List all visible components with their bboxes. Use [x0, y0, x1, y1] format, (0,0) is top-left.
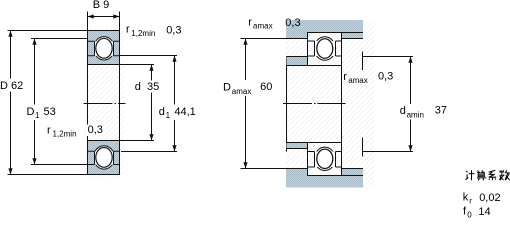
label kr 0,02	[463, 192, 501, 206]
right figure hatch	[286, 20, 374, 188]
left figure hatch	[84, 28, 124, 177]
centerline right	[283, 103, 346, 105]
housing top (blue)	[286, 20, 363, 39]
dimension D 62	[0, 31, 88, 175]
ball bottom	[96, 148, 112, 168]
shaft shoulder top (blue)	[287, 57, 308, 66]
svg-text:0: 0	[467, 210, 472, 218]
svg-text:r: r	[248, 17, 252, 29]
svg-text:D: D	[223, 82, 231, 94]
label r1,2min 0,3 top	[126, 24, 181, 38]
svg-text:1: 1	[35, 111, 40, 120]
shaft shoulder bottom (blue)	[287, 143, 308, 149]
bottom section outline	[88, 141, 120, 175]
dimension B (width)	[88, 0, 120, 30]
svg-text:44,1: 44,1	[174, 106, 195, 118]
svg-text:r: r	[126, 24, 130, 36]
groove bottom (white cut + black arcs)	[94, 146, 115, 169]
svg-text:53: 53	[44, 106, 56, 118]
left figure body (white)	[88, 31, 120, 175]
svg-text:r: r	[47, 124, 51, 136]
svg-text:0,02: 0,02	[479, 192, 500, 204]
bearing bore silhouette (right)	[341, 66, 343, 143]
dimension D1 53	[27, 39, 88, 165]
inner ring bottom band (blue)	[88, 141, 119, 151]
svg-text:0,3: 0,3	[166, 24, 181, 36]
svg-text:r: r	[469, 196, 472, 205]
svg-text:d: d	[159, 106, 165, 118]
svg-text:0,3: 0,3	[285, 17, 300, 29]
bearing bottom section (right, white)	[308, 143, 342, 176]
label: calculation factors (Chinese, bold, drawn)	[466, 170, 510, 180]
svg-text:14: 14	[478, 206, 490, 218]
svg-text:k: k	[463, 192, 469, 204]
svg-text:D 62: D 62	[0, 80, 23, 92]
label r1,2min 0,3 bottom	[47, 124, 104, 139]
ring side shoulders bottom (blue)	[88, 151, 120, 164]
dimension d 35	[120, 65, 160, 141]
label ramax 0,3 middle + leader	[343, 52, 393, 86]
svg-text:1,2min: 1,2min	[53, 130, 77, 139]
bore silhouette lines	[88, 65, 120, 141]
housing bottom (blue)	[286, 169, 363, 188]
svg-text:35: 35	[147, 81, 159, 93]
svg-text:d: d	[400, 105, 406, 117]
char suan	[477, 170, 485, 172]
outer ring top band (blue)	[88, 31, 119, 41]
dimension d1 44,1	[120, 56, 196, 152]
svg-text:0,3: 0,3	[378, 71, 393, 83]
char xi	[489, 170, 497, 180]
svg-text:D: D	[27, 106, 35, 118]
dimension Damax 60	[223, 39, 286, 169]
dimension damin 37	[363, 57, 448, 157]
svg-text:amax: amax	[232, 87, 252, 96]
svg-text:1: 1	[166, 111, 171, 120]
bearing top section (right, white)	[308, 33, 342, 66]
top section outline	[88, 31, 120, 65]
inner ring top band (blue)	[88, 56, 119, 64]
svg-text:amax: amax	[348, 76, 368, 85]
ball top	[96, 38, 112, 58]
svg-text:r: r	[343, 71, 347, 83]
label f0 14	[463, 206, 491, 220]
svg-text:0,3: 0,3	[88, 124, 103, 136]
svg-text:37: 37	[435, 105, 447, 117]
centerline left	[84, 103, 126, 105]
ring side shoulders top (blue)	[88, 41, 120, 55]
svg-text:1,2min: 1,2min	[131, 29, 155, 38]
outer ring bottom band (blue)	[88, 165, 119, 175]
groove top (white cut + black arcs)	[94, 37, 115, 60]
svg-text:amax: amax	[253, 22, 273, 31]
svg-text:amin: amin	[407, 110, 424, 119]
svg-text:B 9: B 9	[93, 0, 110, 11]
char shu	[499, 170, 504, 180]
shaft body	[286, 57, 288, 152]
char ji	[466, 171, 469, 180]
label ramax 0,3 top + leader	[248, 17, 300, 31]
svg-text:d: d	[135, 81, 141, 93]
svg-text:60: 60	[260, 81, 272, 93]
